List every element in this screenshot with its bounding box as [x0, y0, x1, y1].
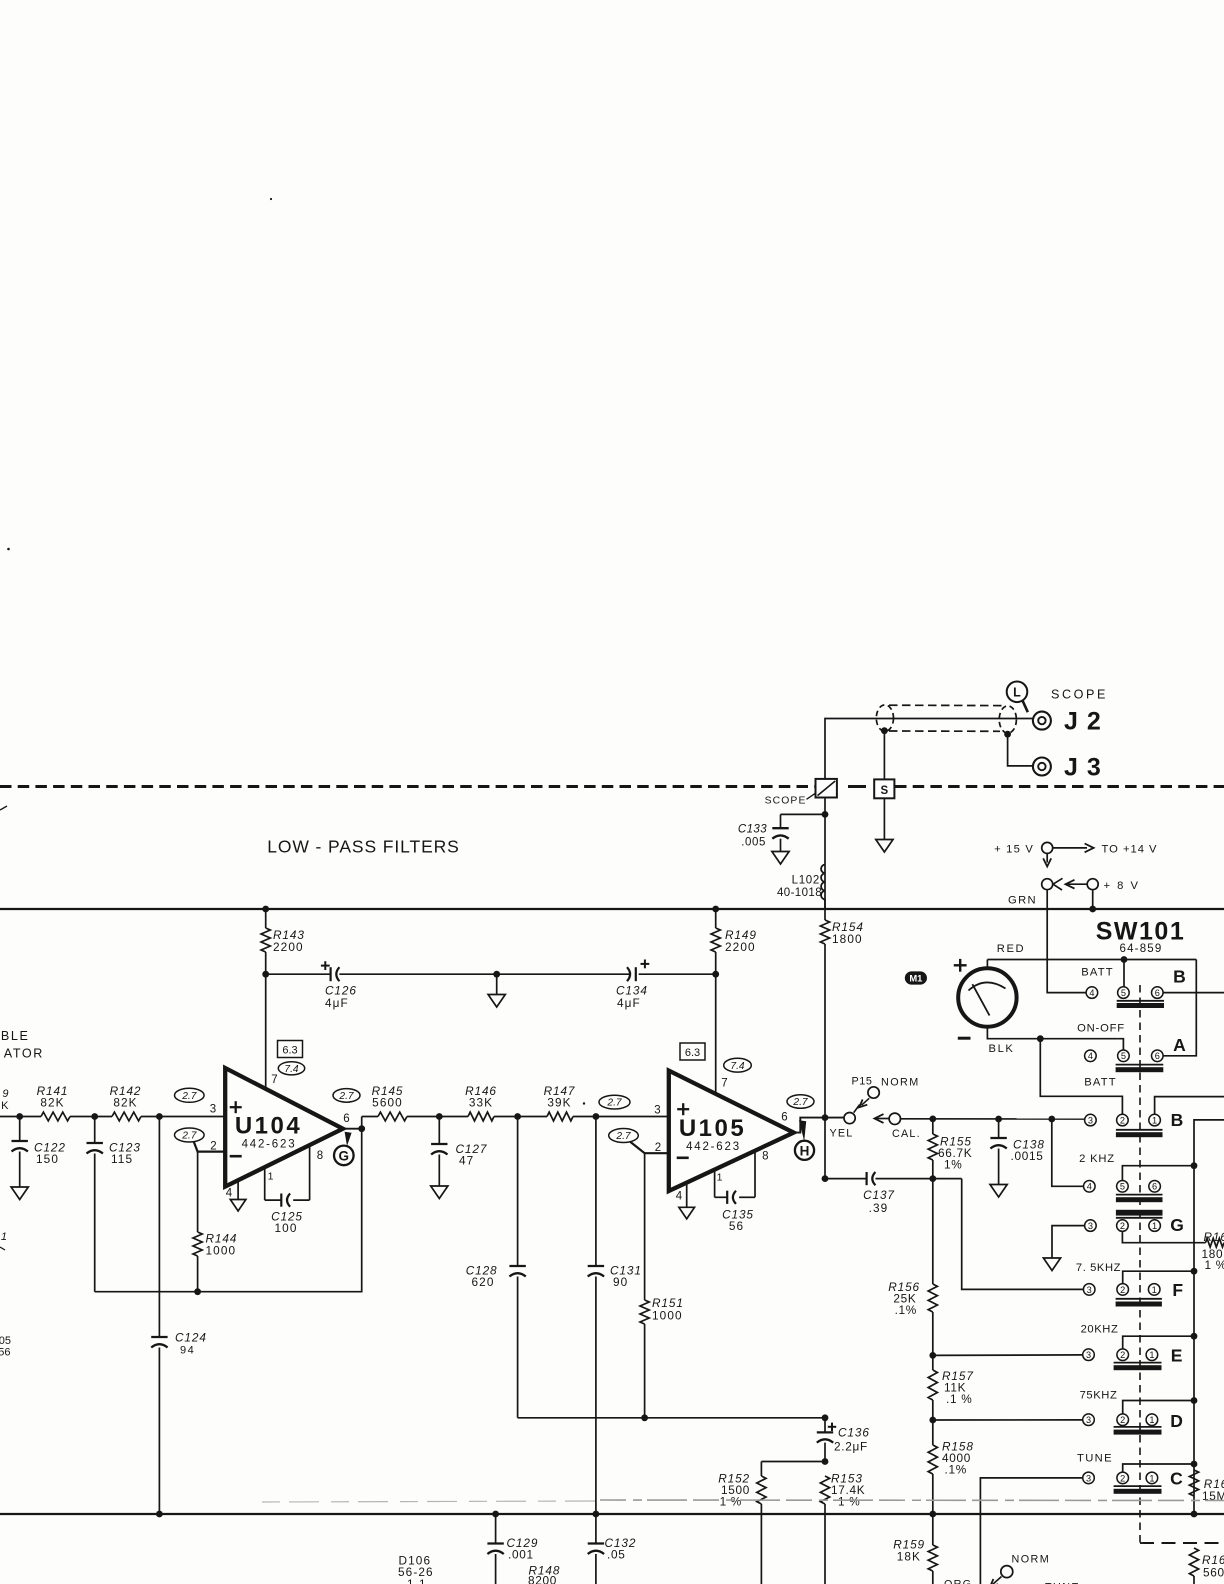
oval 2.7 U105 pin3: [599, 1095, 630, 1109]
svg-text:8: 8: [317, 1150, 323, 1162]
label U104 minus: [230, 1155, 242, 1158]
svg-text:B: B: [1171, 1110, 1184, 1130]
wire to R152: [761, 1461, 825, 1463]
svg-text:7: 7: [271, 1074, 277, 1086]
resistor R158: [928, 1445, 937, 1474]
svg-text:.1 %: .1 %: [946, 1392, 972, 1406]
node F on vertical: [1191, 1268, 1198, 1275]
svg-text:YEL: YEL: [829, 1128, 853, 1140]
ground U104 pin4: [230, 1200, 246, 1212]
capacitor C124: [151, 1336, 167, 1338]
svg-text:3: 3: [654, 1105, 660, 1117]
wire pin5 2KHZ: [1122, 1166, 1194, 1181]
svg-text:1: 1: [1152, 1116, 1157, 1126]
node C128: [514, 1113, 521, 1120]
svg-text:5: 5: [1120, 1182, 1125, 1192]
wire out to R145: [362, 1116, 378, 1118]
svg-text:.1%: .1%: [895, 1303, 917, 1317]
oval 7.4 U105: [724, 1058, 752, 1072]
wire F pin2: [1123, 1271, 1194, 1283]
test point H: [795, 1141, 814, 1160]
oval 2.7 U105 pin2: [609, 1129, 639, 1143]
svg-text:2.7: 2.7: [606, 1098, 621, 1109]
svg-text:TUNE: TUNE: [1077, 1453, 1113, 1465]
wire R151 bottom: [644, 1324, 646, 1418]
svg-text:C133: C133: [738, 824, 767, 836]
resistor R144: [193, 1232, 202, 1256]
switch SW101 dashed centerline: [1139, 985, 1141, 1543]
svg-text:9: 9: [2, 1088, 8, 1100]
bus wire bottom: [0, 1513, 1224, 1515]
svg-text:BLK: BLK: [989, 1043, 1015, 1055]
wire R146-R147: [494, 1116, 547, 1118]
ground G pin3: [1043, 1258, 1060, 1271]
wire R143 bottom: [265, 952, 267, 1052]
switch section C pin 2: [1117, 1472, 1129, 1484]
wire C126 row left: [266, 973, 331, 975]
svg-text:5600: 5600: [372, 1096, 403, 1110]
meter M1 needle: [972, 984, 989, 1015]
wire C pin2: [1123, 1464, 1194, 1472]
wire R143 top: [265, 909, 267, 928]
wire U104 feedback: [95, 1129, 362, 1292]
terminal +8V: [1087, 879, 1098, 890]
svg-text:8200: 8200: [528, 1574, 557, 1584]
svg-text:6: 6: [1152, 1182, 1157, 1192]
pin 1 stub U105: [714, 1170, 716, 1197]
wire +8V to bus: [1092, 890, 1094, 909]
svg-text:U105: U105: [679, 1115, 746, 1142]
svg-text:SCOPE: SCOPE: [765, 796, 807, 807]
svg-text:GRN: GRN: [1008, 895, 1037, 907]
wire C133 to ground: [780, 839, 782, 852]
wire 2KHZ drop: [1052, 1119, 1084, 1186]
wire U105 pin2: [631, 1142, 669, 1153]
svg-text:1: 1: [1152, 1285, 1157, 1295]
switch section G pin 3: [1085, 1220, 1097, 1232]
lug L callout: [1007, 682, 1028, 703]
wire G pin2 to R161: [1122, 1232, 1205, 1243]
box 6.3 U105: [680, 1043, 705, 1060]
label U105 minus: [677, 1157, 689, 1160]
svg-text:P15: P15: [851, 1076, 872, 1088]
svg-text:R16: R16: [1204, 1230, 1224, 1244]
ground below C122: [11, 1187, 28, 1200]
wire R159 stubs: [932, 1514, 934, 1545]
svg-text:1 %: 1 %: [1205, 1258, 1224, 1272]
svg-text:1: 1: [1152, 1221, 1157, 1231]
svg-text:G: G: [339, 1149, 350, 1164]
node R143 C126: [262, 971, 269, 978]
svg-text:442-623: 442-623: [242, 1139, 297, 1151]
contact CAL: [889, 1113, 900, 1124]
svg-text:1 1: 1 1: [407, 1577, 427, 1584]
node C137 left: [822, 1175, 829, 1182]
arrow from +8V: [1066, 880, 1075, 889]
wire U105 output: [794, 1118, 844, 1133]
node R149 C134: [712, 971, 719, 978]
meter M1 top tick: [979, 967, 994, 969]
svg-text:.005: .005: [741, 837, 766, 849]
resistor R163: [1189, 1548, 1198, 1576]
svg-text:4: 4: [1089, 988, 1094, 998]
svg-text:C124: C124: [175, 1331, 207, 1345]
wire BLK meter bottom: [987, 1027, 1117, 1039]
pin 4 stub U105: [686, 1183, 688, 1207]
svg-text:33K: 33K: [469, 1096, 493, 1110]
resistor R142: [112, 1112, 141, 1121]
svg-text:100: 100: [275, 1221, 298, 1235]
svg-text:1000: 1000: [206, 1244, 237, 1258]
wire C122: [19, 1117, 21, 1142]
svg-text:B: B: [1173, 967, 1186, 987]
svg-text:64-859: 64-859: [1119, 943, 1162, 955]
svg-text:.001: .001: [508, 1548, 534, 1562]
node bus R149: [712, 906, 719, 913]
arrow NORM bottom: [992, 1577, 1002, 1584]
wire U105 out down: [824, 1118, 826, 1179]
label U104 plus: [230, 1106, 242, 1108]
box S (shield symbol): [874, 779, 894, 798]
node BLK: [1037, 1035, 1044, 1042]
svg-text:20KHZ: 20KHZ: [1081, 1324, 1119, 1336]
wire C134 to R149: [639, 973, 716, 975]
node C122: [16, 1113, 23, 1120]
svg-text:C136: C136: [838, 1426, 870, 1440]
resistor R161: [1206, 1238, 1224, 1247]
svg-text:1: 1: [1149, 1350, 1154, 1360]
resistor R162: [1189, 1470, 1198, 1496]
svg-text:TO +14 V: TO +14 V: [1102, 844, 1158, 856]
inductor L102: [821, 865, 825, 900]
svg-text:D: D: [1170, 1411, 1183, 1431]
svg-text:BLE: BLE: [1, 1029, 30, 1043]
oval 2.7 U104 out: [333, 1089, 360, 1103]
pointer to H: [799, 1120, 806, 1141]
wire gnd stub: [496, 974, 498, 994]
arrow CAL: [875, 1114, 884, 1123]
wire C126 to gnd node: [339, 973, 629, 975]
resistor R151: [640, 1300, 649, 1324]
capacitor C134: [627, 967, 630, 981]
node U105 output: [822, 1114, 829, 1121]
svg-text:2.2μF: 2.2μF: [834, 1440, 868, 1454]
coax shield dashed top: [889, 704, 1004, 706]
wire R149 top: [715, 909, 717, 928]
wire to C133: [781, 813, 826, 815]
wire C131 upper: [595, 1117, 597, 1267]
switch section E pin 1: [1146, 1349, 1158, 1361]
wire R155 bottom stub: [932, 1160, 934, 1179]
connector J2: [1033, 712, 1051, 730]
wire R141-R142: [70, 1116, 112, 1118]
switch section 2KHZ pin 4: [1084, 1181, 1096, 1193]
svg-text:C137: C137: [863, 1188, 895, 1202]
wire C131 lower: [595, 1277, 597, 1515]
node C124 bottom: [156, 1511, 163, 1518]
svg-text:BATT: BATT: [1084, 1077, 1117, 1089]
resistor R157: [928, 1370, 937, 1400]
switch section D pin 1: [1146, 1414, 1158, 1426]
svg-text:LOW - PASS FILTERS: LOW - PASS FILTERS: [267, 837, 460, 857]
label C126 plus: [321, 965, 330, 967]
wire shield to J3: [1008, 734, 1033, 766]
svg-text:39K: 39K: [547, 1096, 571, 1110]
node RED pin5: [1121, 956, 1128, 963]
switch section B2 pin 3: [1085, 1114, 1097, 1126]
contact YEL: [844, 1113, 855, 1124]
switch section F pin 1: [1148, 1284, 1160, 1296]
svg-text:6: 6: [343, 1113, 349, 1125]
svg-text:75KHZ: 75KHZ: [1080, 1390, 1118, 1402]
svg-text:.1%: .1%: [945, 1463, 967, 1477]
wafer bar 2KHZ: [1116, 1194, 1163, 1196]
switch section F pin 2: [1117, 1284, 1129, 1296]
wire C123 upper: [94, 1117, 96, 1144]
svg-text:E: E: [1171, 1346, 1183, 1366]
bus wire +14V rail: [0, 908, 1224, 910]
wire C138 stub: [998, 1119, 1000, 1138]
svg-text:1: 1: [1149, 1473, 1154, 1483]
svg-text:3: 3: [1086, 1473, 1091, 1483]
wire C122 ground: [19, 1152, 21, 1188]
wire C128 R151 C136 row: [518, 1417, 825, 1419]
oval 2.7 U104 pin2: [175, 1128, 205, 1142]
node ground tap C126 C134: [493, 971, 500, 978]
svg-text:2.7: 2.7: [338, 1091, 353, 1102]
wire CAL to switch: [901, 1118, 1085, 1120]
svg-text:40-1018: 40-1018: [777, 887, 822, 899]
svg-text:05: 05: [0, 1335, 11, 1347]
switch section A pin 4: [1085, 1050, 1097, 1062]
switch section B2 pin 1: [1149, 1114, 1161, 1126]
wire R152 bottom: [760, 1504, 762, 1584]
resistor R149: [711, 928, 720, 952]
coax shield dashed right end: [999, 706, 1016, 733]
svg-text:3: 3: [1086, 1415, 1091, 1425]
resistor R141: [41, 1112, 70, 1121]
wafer bar section C: [1114, 1485, 1162, 1487]
ground below C133: [772, 852, 789, 865]
svg-text:1: 1: [268, 1171, 274, 1183]
pin 8 stub U104: [309, 1145, 311, 1200]
svg-text:1800: 1800: [832, 932, 863, 946]
wire input left: [0, 1116, 41, 1118]
node C137 R155: [929, 1175, 936, 1182]
wire shield to S box: [883, 731, 885, 780]
svg-text:47: 47: [459, 1154, 474, 1168]
svg-text:+ 15 V: + 15 V: [994, 844, 1034, 856]
switch section 2KHZ pin 6: [1149, 1181, 1161, 1193]
wire R157-R158: [932, 1400, 934, 1445]
svg-text:4: 4: [1088, 1051, 1093, 1061]
pin 1 stub U104: [264, 1168, 266, 1201]
svg-text:2: 2: [1120, 1473, 1125, 1483]
wire R144 bottom: [197, 1256, 199, 1292]
node 2KHZ on vertical: [1191, 1162, 1198, 1169]
svg-text:1: 1: [1, 1231, 7, 1243]
label C136 plus: [828, 1426, 836, 1428]
svg-text:2: 2: [1120, 1415, 1125, 1425]
switch section B2 pin 2: [1117, 1114, 1129, 1126]
svg-text:2: 2: [1120, 1116, 1125, 1126]
svg-text:2200: 2200: [725, 940, 756, 954]
test point G: [334, 1146, 354, 1166]
switch SW101 dashed bottom: [1140, 1542, 1224, 1544]
meter M1 body: [958, 968, 1016, 1026]
op-amp U105: [669, 1071, 794, 1191]
svg-text:ATOR: ATOR: [4, 1047, 44, 1061]
svg-text:J2: J2: [1064, 708, 1110, 736]
switch section A pin 6: [1152, 1050, 1164, 1062]
switch section B pin 6: [1152, 987, 1164, 999]
wire RED meter to switch: [987, 960, 1196, 969]
box SCOPE (shield symbol): [816, 779, 837, 798]
wire U104 output: [343, 1128, 362, 1130]
meter M1 scale arc: [969, 982, 1006, 990]
wire C137 left: [825, 1178, 867, 1180]
node R151 bottom: [641, 1414, 648, 1421]
junction shield to J3: [1004, 731, 1011, 738]
resistor R155: [928, 1134, 937, 1160]
wire S box to ground: [883, 798, 885, 839]
contact GRN: [1042, 879, 1053, 890]
wire R156-R157: [932, 1312, 934, 1370]
svg-text:5: 5: [1121, 1051, 1126, 1061]
wafer bar section A: [1116, 1064, 1164, 1066]
switch section G pin 1: [1149, 1220, 1161, 1232]
node C131: [593, 1113, 600, 1120]
svg-text:U104: U104: [235, 1113, 302, 1140]
node bus +8V: [1089, 906, 1096, 913]
ground below C127: [431, 1186, 448, 1199]
resistor R152: [757, 1476, 766, 1504]
node C129: [492, 1511, 499, 1518]
svg-text:.05: .05: [607, 1548, 626, 1562]
svg-text:3: 3: [1086, 1350, 1091, 1360]
svg-text:G: G: [1170, 1215, 1184, 1235]
wire right edge to vertical: [1194, 1120, 1224, 1514]
wafer bar section D: [1114, 1426, 1162, 1428]
svg-text:115: 115: [111, 1152, 133, 1166]
svg-text:L: L: [1013, 686, 1021, 700]
svg-text:.0015: .0015: [1011, 1149, 1044, 1163]
pin 8 stub U105: [754, 1151, 756, 1197]
ground below C126/C134 row: [488, 995, 505, 1008]
svg-text:7.4: 7.4: [730, 1061, 744, 1072]
svg-text:2: 2: [1120, 1221, 1125, 1231]
coax shield dashed left end: [876, 705, 893, 731]
stray mark top: [270, 198, 272, 200]
label C134 plus: [641, 963, 650, 965]
wire C128 upper: [517, 1117, 519, 1267]
wafer bar section B lower: [1116, 1129, 1163, 1131]
svg-text:620: 620: [472, 1275, 495, 1289]
capacitor C136: [817, 1431, 833, 1433]
node U104 output: [358, 1125, 365, 1132]
svg-text:+ 8 V: + 8 V: [1104, 880, 1140, 892]
node D tap: [929, 1417, 936, 1424]
svg-text:2200: 2200: [273, 940, 304, 954]
ground below C138: [990, 1185, 1007, 1198]
svg-text:2: 2: [1120, 1285, 1125, 1295]
svg-text:.39: .39: [869, 1201, 889, 1215]
svg-text:ORG: ORG: [944, 1579, 972, 1584]
node E tap: [929, 1352, 936, 1359]
wire C127 upper: [438, 1117, 440, 1145]
ground below S box: [876, 840, 893, 853]
svg-text:M1: M1: [909, 973, 922, 984]
svg-text:8: 8: [762, 1150, 768, 1162]
capacitor C132: [595, 1514, 597, 1544]
pointer to G: [345, 1132, 352, 1146]
svg-text:BATT: BATT: [1081, 967, 1114, 979]
svg-text:SW101: SW101: [1096, 918, 1185, 946]
svg-text:6: 6: [781, 1111, 787, 1123]
switch section 2KHZ pin 5: [1117, 1181, 1129, 1193]
svg-text:4μF: 4μF: [617, 996, 641, 1010]
wire pin6 B to edge: [1163, 992, 1224, 994]
wire D pin2: [1123, 1401, 1194, 1414]
wire G pin3 to ground: [1052, 1226, 1085, 1258]
svg-text:56: 56: [729, 1219, 744, 1233]
svg-text:94: 94: [180, 1345, 195, 1357]
wire C128 lower: [517, 1277, 519, 1418]
capacitor C123: [87, 1142, 103, 1144]
svg-text:150: 150: [36, 1152, 59, 1166]
resistor R145: [378, 1112, 407, 1121]
wire D row: [933, 1419, 1083, 1421]
badge M1: [905, 971, 927, 984]
wire R155 top stub: [932, 1119, 934, 1134]
switch section A pin 5: [1118, 1050, 1130, 1062]
op-amp U104: [225, 1068, 343, 1187]
svg-text:F: F: [1172, 1280, 1183, 1300]
pin 7 stub U104: [265, 1052, 267, 1090]
resistor R146: [468, 1112, 494, 1121]
wire C127 ground: [438, 1155, 440, 1187]
node C136 bottom: [822, 1458, 829, 1465]
svg-text:6: 6: [1155, 1051, 1160, 1061]
svg-text:560: 560: [1203, 1566, 1224, 1580]
switch section D pin 2: [1117, 1414, 1129, 1426]
resistor R154: [820, 920, 829, 944]
arrow P15: [862, 1098, 870, 1105]
wire R158 to main line: [932, 1474, 934, 1514]
wire E row: [933, 1354, 1083, 1357]
svg-text:5: 5: [1121, 988, 1126, 998]
switch section E pin 3: [1083, 1349, 1095, 1361]
switch section E pin 2: [1117, 1349, 1129, 1361]
switch section B pin 4: [1086, 987, 1098, 999]
wire BLK stub pin5 A: [1117, 1038, 1119, 1040]
wire U104 pin2: [194, 1142, 225, 1152]
wire TUNE row: [980, 1478, 1082, 1584]
capacitor C131: [588, 1265, 604, 1267]
wire C137 right: [875, 1178, 961, 1180]
svg-text:NORM: NORM: [881, 1077, 920, 1089]
node R144 feedback: [194, 1288, 201, 1295]
node bus R143: [262, 906, 269, 913]
wire L102 to R154: [824, 900, 826, 921]
capacitor C126: [330, 967, 332, 981]
capacitor C122: [12, 1140, 28, 1142]
svg-text:82K: 82K: [113, 1096, 137, 1110]
node C127: [436, 1113, 443, 1120]
wire R149 to U105 pin7: [715, 952, 717, 1095]
svg-text:2: 2: [1120, 1350, 1125, 1360]
node E on vertical: [1191, 1333, 1198, 1340]
